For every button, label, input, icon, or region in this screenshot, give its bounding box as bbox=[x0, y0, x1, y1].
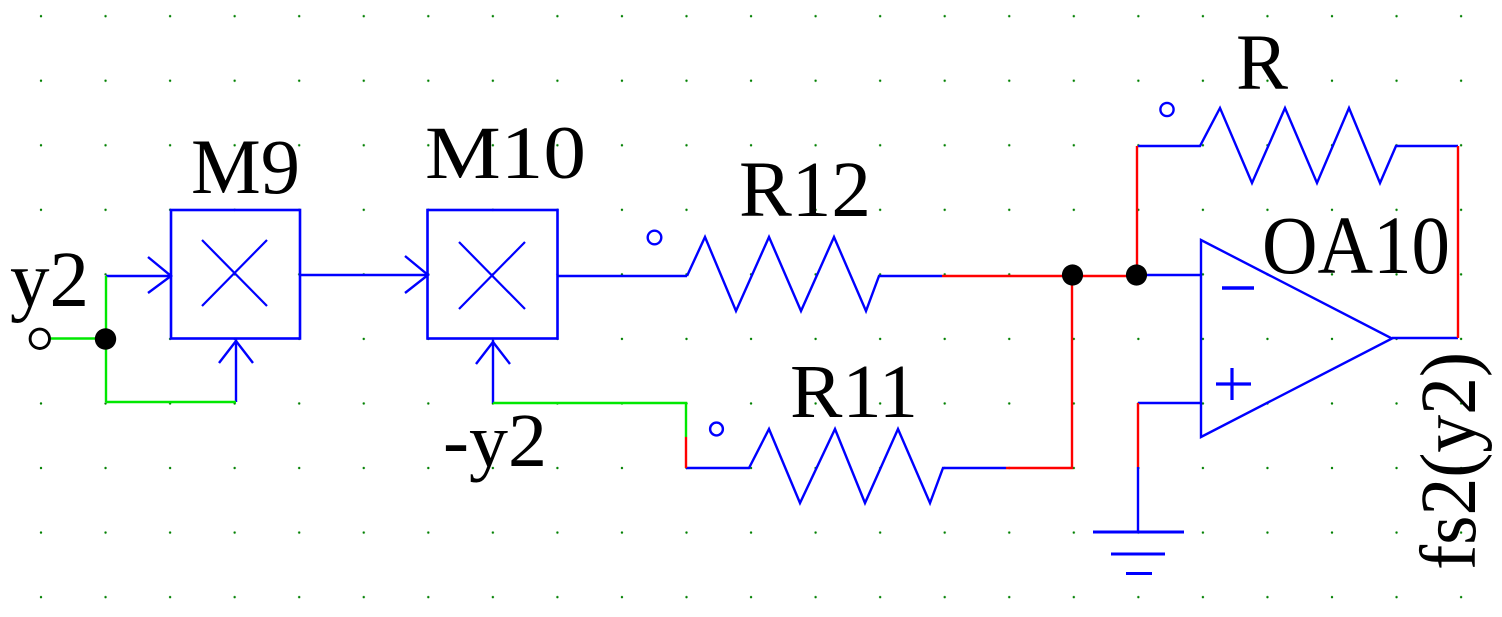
svg-text:R: R bbox=[1236, 20, 1288, 107]
svg-text:M9: M9 bbox=[191, 123, 300, 210]
svg-text:y2: y2 bbox=[10, 237, 89, 324]
svg-text:fs2(y2): fs2(y2) bbox=[1406, 352, 1493, 570]
svg-text:R12: R12 bbox=[739, 147, 871, 234]
svg-text:OA10: OA10 bbox=[1262, 199, 1450, 291]
svg-text:R11: R11 bbox=[790, 350, 918, 434]
svg-text:M10: M10 bbox=[425, 112, 586, 195]
svg-text:-y2: -y2 bbox=[443, 399, 547, 483]
